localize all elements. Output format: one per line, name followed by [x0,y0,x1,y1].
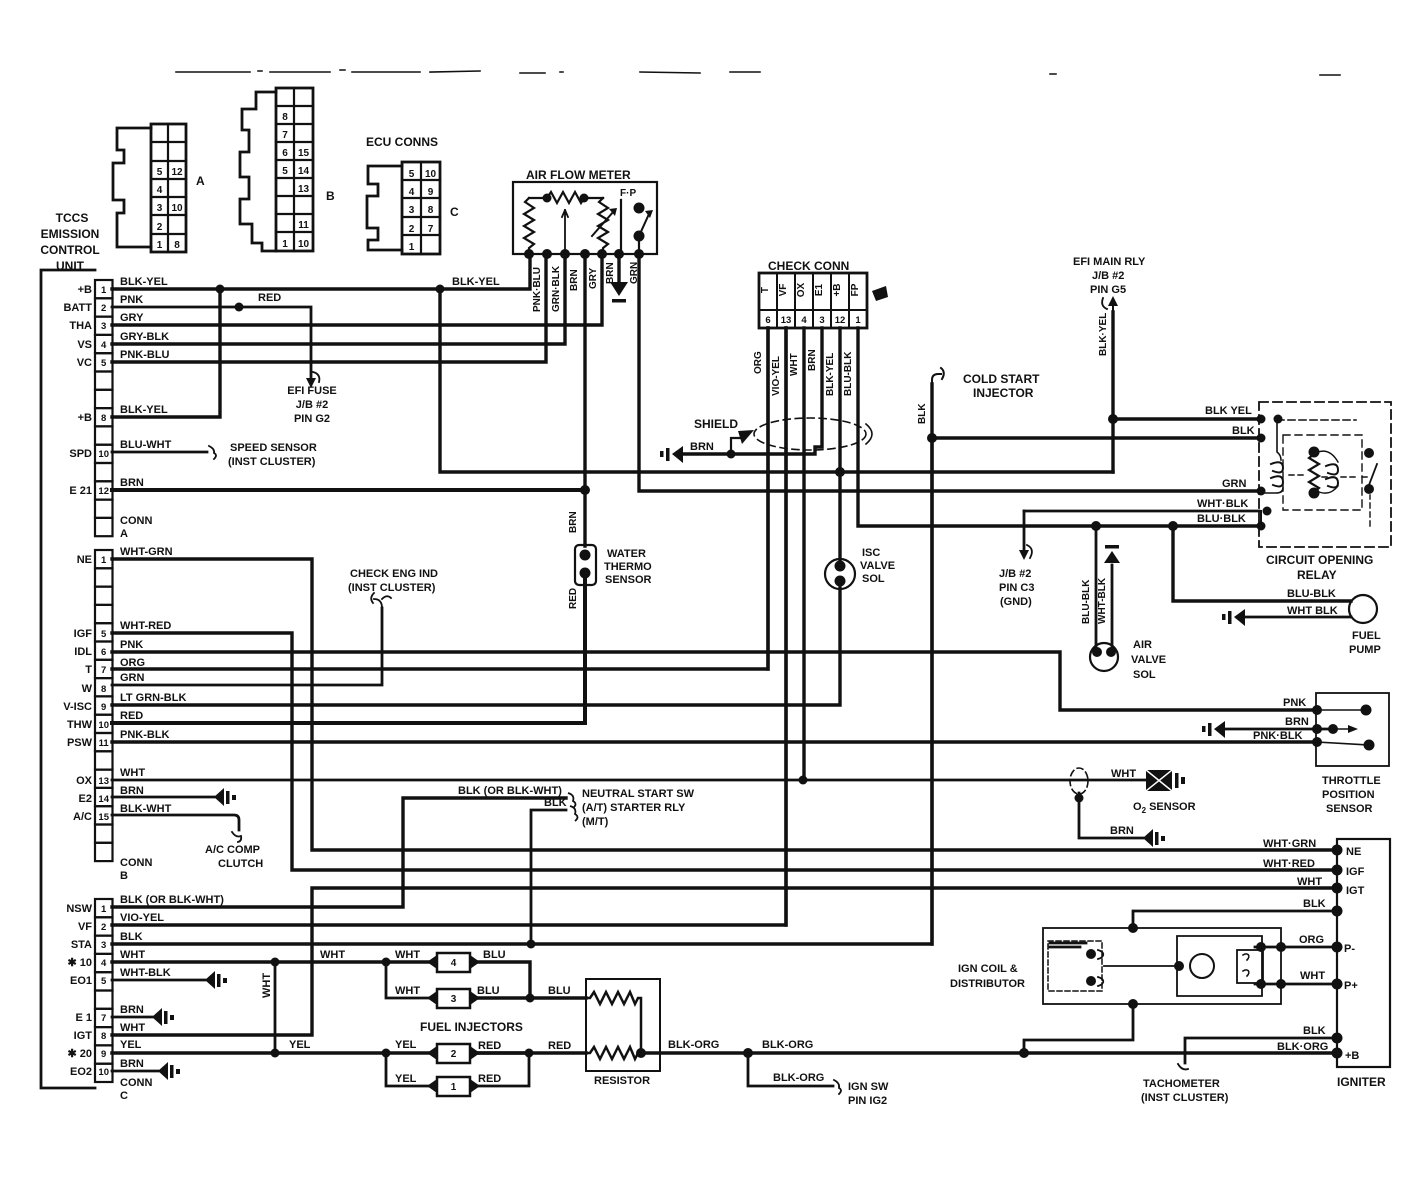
svg-text:BATT: BATT [63,302,92,314]
junction OX/check conn WHT [799,776,808,785]
wire BRN TPS wiper with ground [1225,725,1358,733]
wire WHT-BLK air valve lead with ground [1111,565,1114,650]
svg-text:IGNITER: IGNITER [1337,1075,1386,1089]
wire WHT-BLK EO1 row to ground [112,979,205,982]
svg-text:8: 8 [282,112,288,123]
wire WHT injector3 branch [386,962,435,998]
ISC valve solenoid [825,559,855,589]
svg-text:RESISTOR: RESISTOR [594,1075,650,1087]
fuel pump row labels [1287,588,1338,617]
wire BLK cold start injector vertical [930,438,933,944]
svg-text:BLU: BLU [483,949,506,961]
svg-text:POSITION: POSITION [1322,789,1375,801]
svg-text:14: 14 [298,166,310,177]
svg-text:J/B #2: J/B #2 [999,568,1031,580]
svg-text:BLK (OR BLK-WHT): BLK (OR BLK-WHT) [458,785,562,797]
svg-text:EFI FUSE: EFI FUSE [287,385,337,397]
injector numbers [451,958,457,1093]
AFM switch contact top [634,203,645,214]
svg-text:8: 8 [101,684,106,695]
svg-text:WHT-RED: WHT-RED [120,620,171,632]
wire WHT check conn lead [802,328,805,780]
svg-text:5: 5 [157,167,163,178]
svg-text:CONTROL: CONTROL [40,243,99,257]
svg-text:(INST CLUSTER): (INST CLUSTER) [348,582,436,594]
svg-text:6: 6 [282,148,288,159]
cold start injector hook [932,368,944,384]
wire GRN AFM to circuit opening relay [639,254,1259,491]
ground fuel pump WHT-BLK [1222,609,1245,626]
shield ellipse around check harness [754,418,872,450]
svg-text:10: 10 [171,203,183,214]
svg-text:5: 5 [282,166,288,177]
air flow meter AFM box [513,182,657,254]
wire BRN check conn E1 lead to shield ground [731,328,822,454]
wire BRN AFM to water thermo junction [583,254,586,546]
svg-text:11: 11 [298,220,309,231]
svg-text:WHT: WHT [261,973,273,998]
pin name labels conn A [63,284,92,497]
svg-text:RED: RED [478,1040,501,1052]
svg-text:PNK: PNK [120,294,143,306]
svg-text:4: 4 [409,187,415,198]
ground EO1 [205,971,227,989]
ign coil and distributor outer box [1043,928,1281,1004]
svg-text:F·P: F·P [620,188,636,199]
relay resistor [1309,447,1320,499]
svg-text:WATER: WATER [607,548,646,560]
svg-text:WHT: WHT [1300,970,1325,982]
AFM wiper arm [562,210,568,252]
svg-text:GRN: GRN [1222,478,1247,490]
wire BLU-WHT SPD row to speed sensor [112,446,216,459]
pin name labels conn B [63,554,92,823]
EFI main relay lead label rotated [1098,313,1109,356]
svg-text:BLK-YEL: BLK-YEL [120,404,168,416]
wire ORG distributor to igniter [1255,946,1337,949]
svg-text:GRY-BLK: GRY-BLK [120,331,169,343]
label ECU title [40,211,99,273]
svg-text:15: 15 [98,812,109,823]
svg-text:10: 10 [98,720,109,731]
relay terminal dots [1257,415,1283,531]
svg-text:WHT-BLK: WHT-BLK [120,967,171,979]
svg-text:2: 2 [451,1049,457,1060]
svg-text:E1: E1 [814,283,825,296]
connector B housing [240,88,313,251]
svg-text:8: 8 [174,240,180,251]
svg-text:1: 1 [409,242,415,253]
svg-text:SOL: SOL [862,573,885,585]
svg-text:6: 6 [765,315,770,326]
svg-text:PIN IG2: PIN IG2 [848,1095,887,1107]
connector C cell numbers [409,169,437,253]
AFM variable resistor R-right with arrow [592,198,617,252]
label ECU CONNS [366,135,438,149]
svg-text:BLU-BLK: BLU-BLK [843,351,854,396]
label CONN B [120,857,152,882]
svg-text:DISTRIBUTOR: DISTRIBUTOR [950,978,1025,990]
label check engine indicator [348,568,438,594]
wire BRN E1 row to ground [112,1016,152,1019]
wire BLK-WHT A/C row to compressor clutch [112,815,241,842]
shield arrow pointer [731,430,754,454]
wire BLK(OR BLK-WHT) NSW row to neutral start switch [112,798,566,907]
wire BLK igniter to distributor [1133,911,1337,928]
svg-text:BLU: BLU [477,985,500,997]
wire GRY-BLK VS row to AFM [112,254,565,344]
distributor rotor [1190,954,1214,978]
svg-text:PNK-BLK: PNK-BLK [120,729,170,741]
svg-text:BLK: BLK [544,797,567,809]
ignition coil windings [1086,949,1103,986]
junction BLU [526,994,535,1003]
wire BRN O2 shield drain [1079,793,1143,838]
wire YEL/BLK-ORG *20 main bottom row [112,1051,1337,1055]
svg-text:B: B [326,189,335,203]
svg-text:VALVE: VALVE [860,560,895,572]
fuel pump motor [1349,595,1377,623]
svg-text:PNK: PNK [1283,697,1306,709]
svg-text:SENSOR: SENSOR [1326,803,1373,815]
wire BRN E2 row to ground [112,796,214,799]
cold start BLK label rotated [917,403,928,424]
svg-text:ORG: ORG [753,351,764,374]
wire BLU-BLK air valve lead [1095,526,1098,650]
svg-text:BRN: BRN [690,441,714,453]
wire BLK-YEL vertical +B1 to +B8 [112,289,220,417]
wire WHT *10 row to injectors [112,960,435,963]
svg-text:PSW: PSW [67,737,93,749]
wire WHT IGT row to igniter [112,888,1337,1035]
svg-text:YEL: YEL [395,1039,417,1051]
svg-text:3: 3 [101,321,106,332]
svg-text:THERMO: THERMO [604,561,652,573]
top margin dashed artifact [176,70,1340,75]
svg-text:+B: +B [1345,1050,1359,1062]
svg-text:FUEL: FUEL [1352,630,1381,642]
svg-text:OX: OX [76,775,93,787]
throttle position sensor box [1316,693,1389,766]
svg-text:ISC: ISC [862,547,880,559]
svg-text:A/C COMP: A/C COMP [205,844,260,856]
TPS PNK-BLK terminal [1312,737,1375,751]
svg-text:P-: P- [1344,943,1355,955]
svg-text:INJECTOR: INJECTOR [973,386,1034,400]
neutral start sw braces [568,793,578,821]
svg-text:BLU: BLU [548,985,571,997]
wire WHT OX row to O2 sensor [112,779,1146,782]
wire BLK STA row to cold start injector [112,384,932,944]
svg-text:7: 7 [428,224,434,235]
junction EFI main relay [1108,414,1118,424]
fuel injector 3 [427,989,480,1008]
svg-text:YEL: YEL [395,1073,417,1085]
wire PNK/RED BATT row [112,307,311,383]
svg-text:THW: THW [67,719,93,731]
O2 sensor body [1146,770,1172,791]
svg-text:BRN: BRN [120,1058,144,1070]
distributor pickup box [1237,950,1263,983]
relay row labels [1197,405,1255,525]
svg-text:BRN: BRN [1110,825,1134,837]
svg-text:RED: RED [568,588,579,609]
svg-text:WHT: WHT [120,767,145,779]
wire coil to rotor [1104,965,1179,967]
svg-text:THA: THA [69,320,92,332]
junction YEL/WHT link [271,1049,280,1058]
pin box group conn C [95,899,113,1082]
svg-text:COLD START: COLD START [963,372,1040,386]
svg-text:GRN: GRN [629,262,640,284]
AFM top rail with resistor [529,192,603,203]
svg-text:A: A [120,528,128,540]
wire BRN EO2 row to ground [112,1070,158,1073]
WHT terminal dots [1256,979,1286,989]
svg-text:(GND): (GND) [1000,596,1032,608]
svg-text:4: 4 [451,958,457,969]
junction cold start/relay BLK [927,433,937,443]
TPS inner wire PNK-BLK [1317,742,1369,745]
svg-text:J/B #2: J/B #2 [1092,270,1124,282]
svg-text:VF: VF [78,921,92,933]
svg-text:RED: RED [258,292,281,304]
connector A cell numbers [157,167,183,251]
svg-text:A/C: A/C [73,811,92,823]
svg-text:E 1: E 1 [75,1012,92,1024]
igniter pin labels [1344,846,1365,1062]
svg-text:VIO-YEL: VIO-YEL [120,912,164,924]
svg-text:11: 11 [99,738,110,749]
svg-text:ORG: ORG [120,657,145,669]
label resistor [594,1075,650,1087]
svg-text:WHT: WHT [1297,876,1322,888]
svg-text:BLU-BLK: BLU-BLK [1081,579,1092,624]
label CONN A [120,515,152,540]
svg-text:BRN: BRN [605,262,616,284]
svg-text:1: 1 [282,239,288,250]
wire VIO-YEL VF row to check connector [112,328,786,925]
wire BLK-ORG to ignition switch [748,1053,841,1094]
junction STA/neutral start sw [527,940,536,949]
svg-text:BLU-BLK: BLU-BLK [1287,588,1336,600]
junction check +B / feed row [835,467,845,477]
junction PNK to RED splice [235,303,244,312]
svg-text:5: 5 [409,169,415,180]
wire ORG check conn lead [766,328,769,669]
svg-text:PNK·BLK: PNK·BLK [1253,730,1303,742]
ground EO2 [158,1062,180,1080]
label fuel pump [1349,630,1381,656]
text labels layer [40,211,889,1107]
svg-text:B: B [120,870,128,882]
svg-text:BLK·ORG: BLK·ORG [1277,1041,1328,1053]
ground O2 sensor case [1175,773,1185,788]
svg-text:BLK-WHT: BLK-WHT [120,803,172,815]
junction +B1/+B8 [216,285,225,294]
label throttle position sensor [1322,775,1381,815]
pin box group conn A [95,280,113,536]
svg-text:9: 9 [428,187,434,198]
svg-text:10: 10 [298,239,310,250]
fuel injector 2 [427,1044,480,1063]
svg-text:BLK: BLK [1232,425,1255,437]
wire VIO-YEL check conn lead [784,328,787,925]
svg-text:BLU·BLK: BLU·BLK [1197,513,1246,525]
label ISC valve sol [860,547,895,585]
svg-text:PNK-BLU: PNK-BLU [120,349,170,361]
wire IGF WHT-RED row [112,633,1337,870]
svg-text:FP: FP [850,283,861,296]
svg-text:5: 5 [101,629,107,640]
svg-text:SPD: SPD [69,448,92,460]
AFM terminal row dots [524,249,644,259]
TPS PNK terminal [1312,705,1372,716]
svg-text:WHT·RED: WHT·RED [1263,858,1315,870]
svg-text:5: 5 [101,976,107,987]
label air flow meter [526,168,636,199]
svg-text:RELAY: RELAY [1297,568,1337,582]
label speed sensor [228,442,317,468]
label ign coil distributor [950,963,1025,990]
svg-text:(M/T): (M/T) [582,816,609,828]
svg-text:2: 2 [409,224,415,235]
svg-text:TACHOMETER: TACHOMETER [1143,1078,1220,1090]
wire BLK neutral start switch branch [531,810,566,944]
svg-text:PNK·BLU: PNK·BLU [532,267,543,312]
junction *10/injector3 branch [382,958,391,967]
svg-text:BRN: BRN [807,349,818,371]
svg-text:E2: E2 [79,793,92,805]
svg-text:AIR FLOW METER: AIR FLOW METER [526,168,631,182]
svg-text:CIRCUIT OPENING: CIRCUIT OPENING [1266,553,1373,567]
svg-text:C: C [450,205,459,219]
svg-text:WHT: WHT [789,353,800,376]
junction AFM rail left [543,194,552,203]
EFI FUSE arrow [306,371,319,388]
junction E21/water thermo [580,485,590,495]
AFM pin labels rotated [532,262,640,312]
svg-text:WHT: WHT [395,985,420,997]
svg-text:PUMP: PUMP [1349,644,1381,656]
wire RED THW row to water thermo sensor [112,580,585,723]
fuel injector 1 [427,1077,480,1096]
O2 sensor shield loop [1070,768,1088,794]
svg-text:10: 10 [425,169,437,180]
wire labels conn C rows [120,894,224,1070]
junction BLU-BLK fuel pump tap [1168,521,1178,531]
svg-text:8: 8 [101,413,106,424]
label IGN SW [848,1081,889,1107]
svg-text:(INST CLUSTER): (INST CLUSTER) [1141,1092,1229,1104]
svg-text:PIN G5: PIN G5 [1090,284,1126,296]
svg-text:PIN C3: PIN C3 [999,582,1034,594]
svg-text:12: 12 [98,486,109,497]
junction BLU-BLK air valve tap [1091,521,1101,531]
svg-text:10: 10 [98,449,109,460]
wire BLU injector3 out to resistor [472,996,586,999]
pin number labels conn B [98,555,109,823]
svg-text:BLK-ORG: BLK-ORG [668,1039,719,1051]
svg-text:ECU CONNS: ECU CONNS [366,135,438,149]
junction BLK-ORG main row [1019,1048,1029,1058]
wire labels conn A rows [120,276,281,489]
check conn pin names rotated [760,282,861,297]
svg-text:BLK: BLK [1303,898,1326,910]
TPS row labels [1253,697,1309,742]
svg-text:WHT-BLK: WHT-BLK [1097,577,1108,624]
svg-text:BLK: BLK [120,931,143,943]
svg-text:1: 1 [855,315,861,326]
svg-text:7: 7 [101,1013,106,1024]
label air valve sol [1131,639,1166,681]
svg-text:YEL: YEL [289,1039,311,1051]
svg-text:3: 3 [451,994,457,1005]
svg-text:13: 13 [98,776,109,787]
svg-text:BLK: BLK [1303,1025,1326,1037]
wire ORG T row to check connector [112,328,768,669]
svg-text:IGN SW: IGN SW [848,1081,889,1093]
svg-text:YEL: YEL [120,1039,142,1051]
svg-text:✱ 20: ✱ 20 [67,1048,92,1060]
svg-text:1: 1 [451,1082,457,1093]
wire PNK-BLK PSW row to TPS [112,740,1317,743]
svg-text:CONN: CONN [120,857,152,869]
svg-text:VIO-YEL: VIO-YEL [771,356,782,396]
svg-text:NSW: NSW [66,903,92,915]
water thermo sensor body [575,545,596,585]
svg-text:PNK: PNK [120,639,143,651]
svg-text:✱ 10: ✱ 10 [67,957,92,969]
label circuit opening relay [1266,553,1373,582]
svg-text:AIR: AIR [1133,639,1152,651]
label neutral start switch [458,785,695,828]
svg-text:WHT-GRN: WHT-GRN [120,546,173,558]
ECU U1 TCCS emission control unit outline [41,270,95,1088]
svg-text:CLUTCH: CLUTCH [218,858,263,870]
svg-text:EO2: EO2 [70,1066,92,1078]
svg-text:CONN: CONN [120,1077,152,1089]
svg-text:A: A [196,174,205,188]
connector C housing [367,162,440,254]
wire labels conn B rows [120,546,186,815]
svg-text:BLK-ORG: BLK-ORG [773,1072,824,1084]
wire +B1 BLK-YEL row to AFM [112,254,530,289]
pin number labels conn C [98,904,109,1078]
ground O2 BRN [1143,829,1165,847]
vertical WHT link label [261,973,273,998]
svg-text:2: 2 [101,303,106,314]
svg-text:2: 2 [157,222,163,233]
svg-text:NE: NE [77,554,92,566]
svg-text:T: T [760,287,771,293]
relay contact [1364,448,1377,494]
circuit opening relay dashed box [1259,402,1391,547]
svg-text:10: 10 [98,1067,109,1078]
wire BLK-YEL check conn +B lead to ISC valve [838,328,841,565]
label cold start injector [963,372,1040,400]
svg-text:NE: NE [1346,846,1361,858]
wire BLU injector4 out [472,962,530,998]
svg-text:9: 9 [101,1049,106,1060]
svg-text:BRN: BRN [120,1004,144,1016]
svg-text:1: 1 [157,240,163,251]
svg-text:BLK·YEL: BLK·YEL [1098,313,1109,356]
svg-text:VC: VC [77,357,92,369]
svg-text:BLK-YEL: BLK-YEL [120,276,168,288]
igniter box [1337,839,1390,1067]
water thermo lead labels [568,511,579,609]
